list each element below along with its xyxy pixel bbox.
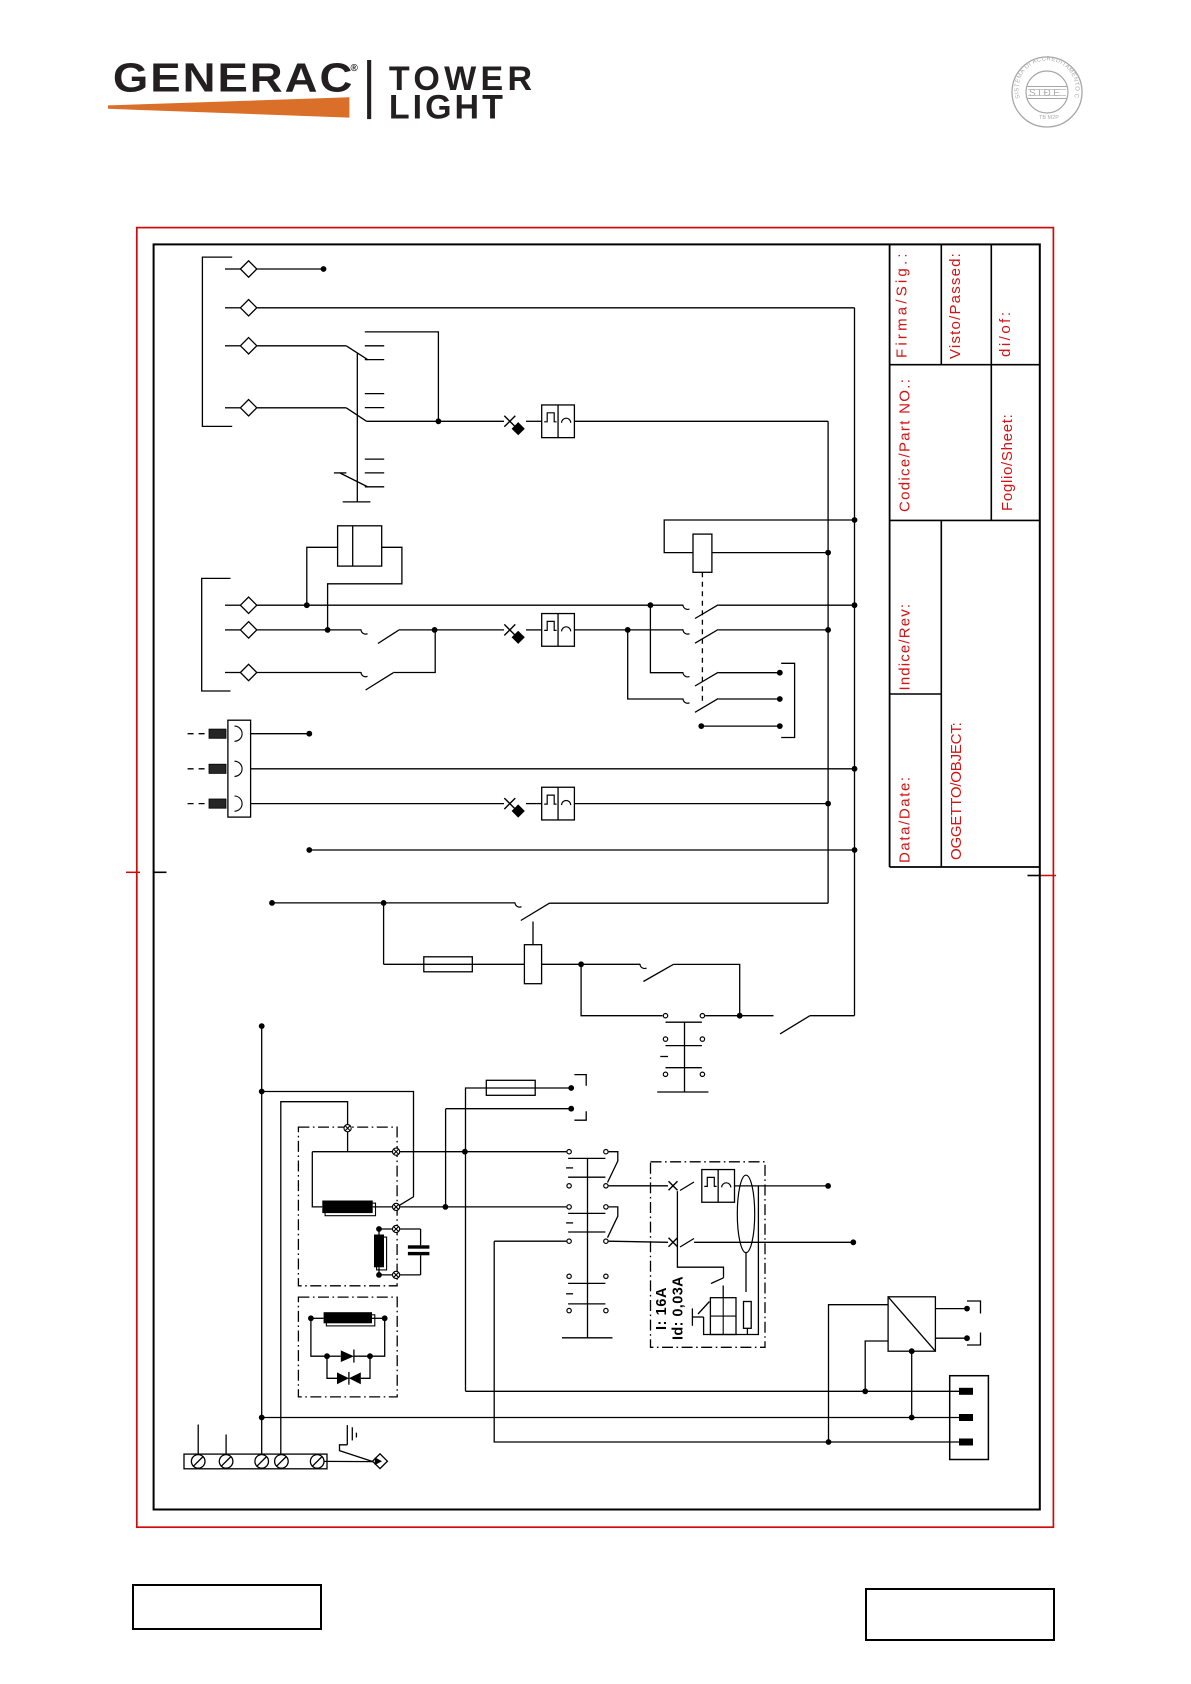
thermal breaker Q1 xyxy=(542,405,575,438)
terminal block X1 body xyxy=(228,720,251,817)
wire row 630 to bus B xyxy=(718,629,828,631)
wire contact 4 to terminal xyxy=(718,698,778,700)
svg-text:Visto/Passed:: Visto/Passed: xyxy=(947,252,964,359)
wire fuse F5 feed xyxy=(466,1088,487,1391)
capacitor C1 xyxy=(420,1229,422,1245)
wire row 672 to switch xyxy=(257,672,361,674)
RCD pole A fuse mark xyxy=(669,1181,678,1190)
connector X2 pin 3 xyxy=(959,1439,973,1446)
relay contact K2-2 blade xyxy=(695,630,718,644)
Generac orange swoosh xyxy=(108,97,349,117)
terminal T5 on box A right xyxy=(379,1274,421,1276)
centre fold mark right (black) xyxy=(1028,875,1040,877)
pushbutton SB1 contact left xyxy=(663,1014,667,1018)
wire battery positive stub xyxy=(259,1023,265,1029)
switch S2b blade xyxy=(366,673,394,690)
wire K1 right terminal xyxy=(328,547,402,629)
wire U1 output + xyxy=(935,1308,965,1310)
relay contact K2-1 fixed xyxy=(683,605,690,610)
switch S4 blade xyxy=(643,964,673,981)
strip terminal 4 xyxy=(275,1455,289,1469)
resistor R2 (filled, vertical) xyxy=(376,1226,382,1232)
selector pole 2 contacts xyxy=(567,1205,571,1209)
switch S3 blade xyxy=(521,903,550,920)
wire K2 right terminal to bus B xyxy=(712,552,827,554)
diode D1 xyxy=(327,1355,341,1357)
relay contact K2-4 fixed xyxy=(683,699,690,704)
switch S4 seat xyxy=(640,964,647,969)
wire selector to RCD line B xyxy=(609,1241,668,1242)
RCD pole A blade xyxy=(680,1182,694,1191)
RCD trip coil xyxy=(710,1298,736,1335)
connector pin 2.1 (diamond) xyxy=(225,604,240,606)
earth terminal strip xyxy=(184,1454,327,1469)
wire Q1 to vertical bus B xyxy=(574,420,828,422)
wire U1 output - xyxy=(935,1337,965,1339)
branch row903 down to fuse F4 xyxy=(383,903,385,964)
logo divider bar xyxy=(367,60,371,119)
wire row 1152 (box A to selector) xyxy=(312,1151,566,1153)
thermal breaker Q2 xyxy=(542,614,575,647)
resistor R3 (filled) xyxy=(308,1315,314,1321)
svg-text:Codice/Part NO.:: Codice/Part NO.: xyxy=(896,378,913,512)
wire line Y3 from selector pole2 xyxy=(494,1241,959,1442)
wire row 1109 to faston xyxy=(446,1108,570,1110)
wire K2 left terminal to bus A xyxy=(664,520,853,553)
wire S5 to bus A bottom xyxy=(810,1015,855,1017)
wire ferrule 1 xyxy=(209,729,226,738)
centre fold mark right (red) xyxy=(1040,875,1056,877)
strip terminal 3 xyxy=(255,1455,269,1469)
RCD current transformer xyxy=(737,1175,754,1252)
relay contact row 3 feed xyxy=(650,605,683,673)
RCD box (dash-dot) xyxy=(651,1162,766,1348)
connector X2 body xyxy=(950,1376,989,1460)
wire U1 bottom to line Y2 xyxy=(911,1351,913,1417)
wire selector to RCD line A xyxy=(609,1185,668,1187)
connector pin 1.1 (diamond) xyxy=(225,268,240,270)
wire F3 to breaker Q3 xyxy=(526,803,542,805)
connector X2 pin 1 xyxy=(959,1388,973,1395)
wire F1 to breaker Q1 xyxy=(526,420,542,422)
wire Q2 to relay contact xyxy=(574,629,683,631)
selector pole 3 contacts xyxy=(567,1274,571,1278)
wire pin1.1 to node xyxy=(257,268,322,270)
branch node down to row 1016 xyxy=(581,964,662,1015)
connector pin 1.4 (diamond) xyxy=(225,407,240,409)
terminal X1.3 contact xyxy=(235,796,243,811)
RCD pole B fuse mark xyxy=(669,1238,678,1247)
wire strip to earth diamond xyxy=(324,1460,373,1462)
title block divider row2 xyxy=(890,519,1040,521)
svg-text:®: ® xyxy=(351,63,359,74)
svg-text:OGGETTO/OBJECT:: OGGETTO/OBJECT: xyxy=(948,722,965,860)
faston bracket 1 xyxy=(574,1075,586,1086)
wire RCD line A out xyxy=(734,1185,826,1187)
wire R3 right down xyxy=(370,1318,385,1356)
wire K1 left terminal xyxy=(307,547,338,605)
key switch blade a xyxy=(346,346,368,360)
faston bracket U1 out- xyxy=(967,1333,981,1346)
switch S2b seat xyxy=(361,672,368,677)
pushbutton SB1 side tick xyxy=(660,1056,668,1058)
fuse disconnector F1 xyxy=(504,416,515,427)
resistor R1 (filled) xyxy=(325,1203,375,1216)
strip stub 1 xyxy=(197,1425,199,1455)
connector X bracket group 2 xyxy=(202,578,231,691)
RCD trip blade xyxy=(711,1278,724,1284)
strip terminal 1 xyxy=(191,1455,205,1469)
wire R3 left down xyxy=(311,1318,327,1356)
connector pin 1.3 (diamond) xyxy=(225,345,240,347)
selector S6 shaft xyxy=(587,1158,589,1337)
connector bracket right of contacts xyxy=(781,663,794,737)
selector pole 1 contacts xyxy=(567,1150,571,1154)
wire line Y1 xyxy=(466,1390,960,1392)
key switch top link xyxy=(365,332,439,421)
wire row 1016 middle xyxy=(705,1015,773,1017)
wire box A internal down xyxy=(312,1152,322,1207)
terminal T1 on box A top xyxy=(344,1125,351,1132)
wire X1.2 long feed to bus A xyxy=(251,768,855,770)
bottom-left reference box xyxy=(132,1584,322,1630)
wire contact 3 to terminal xyxy=(718,672,778,674)
relay contact K2-3 blade xyxy=(695,672,718,686)
relay coil K1 xyxy=(338,526,382,566)
RCD trip linkage xyxy=(677,1191,723,1278)
wire S2b up to row 630 xyxy=(393,630,435,673)
dashed lead 3 xyxy=(188,803,208,805)
wire row 1207 (R1 to selector) xyxy=(373,1206,567,1208)
regulator box B (dash-dot) xyxy=(298,1297,397,1397)
centre fold mark left (red) xyxy=(126,871,140,873)
relay coil K2 xyxy=(693,534,712,572)
wire K3 to node xyxy=(542,963,582,965)
wire line Y2 xyxy=(262,1417,959,1419)
switch S2a blade xyxy=(378,630,399,643)
relay contact K2-4 blade xyxy=(695,699,718,713)
relay contact K2-2 fixed xyxy=(683,629,690,634)
fuse disconnector F2 xyxy=(504,624,515,635)
wire row 605 right segment xyxy=(718,604,854,606)
pushbutton SB1 body bars xyxy=(666,1021,702,1023)
RCD test blade xyxy=(698,1302,710,1315)
RCD test loop xyxy=(704,1186,759,1334)
svg-text:Firma/Sig.:: Firma/Sig.: xyxy=(894,250,911,358)
connector pin 2.2 (diamond) xyxy=(225,629,240,631)
title block divider row3 xyxy=(890,693,942,695)
wire S4 to drop xyxy=(673,964,739,1015)
svg-text:Indice/Rev:: Indice/Rev: xyxy=(896,603,913,691)
selector blade pole1 xyxy=(608,1152,618,1183)
sheet black border xyxy=(154,244,1040,1509)
strip stub 2 xyxy=(225,1435,227,1455)
pushbutton SB1 contact right xyxy=(700,1014,704,1018)
approval stamp xyxy=(1008,53,1088,133)
thermal breaker Q3 xyxy=(542,787,575,820)
relay K2 mechanical link (dashed) xyxy=(701,572,703,704)
relay contact K2-1 blade xyxy=(695,605,718,619)
fuse F5 xyxy=(486,1080,535,1095)
switch S5 blade xyxy=(780,1016,810,1034)
connector X bracket group 1 xyxy=(202,257,232,426)
svg-text:Foglio/Sheet:: Foglio/Sheet: xyxy=(999,414,1016,512)
wire pin1.2 long feed to vertical bus A xyxy=(257,307,854,309)
title block divider col1 xyxy=(940,244,942,364)
svg-text:Id: 0,03A: Id: 0,03A xyxy=(670,1276,686,1340)
wire X1.3 to fuse F3 xyxy=(251,803,504,805)
svg-text:di/of:: di/of: xyxy=(997,309,1014,357)
strip terminal 5 xyxy=(310,1455,324,1469)
bottom-right reference box xyxy=(865,1588,1055,1641)
vertical bus A x=854.5 xyxy=(854,308,856,1016)
wire X1.1 stub xyxy=(251,733,308,735)
dashed lead 1 xyxy=(188,733,208,735)
selector S6 base bar xyxy=(562,1337,613,1339)
dashed lead 2 xyxy=(188,768,208,770)
wire row1109 drop to selector row3 xyxy=(445,1109,447,1207)
terminal T4 on box A right xyxy=(379,1228,421,1230)
title block outline xyxy=(889,244,891,867)
earth connector diamond xyxy=(373,1454,388,1469)
terminal X1.2 contact xyxy=(235,761,243,776)
regulator box A (dash-dot) xyxy=(298,1127,397,1286)
wire strip t4 riser xyxy=(281,1102,348,1455)
wire F2 to breaker Q2 xyxy=(526,629,542,631)
suppressor D2 (bidirectional) xyxy=(327,1356,337,1378)
Generac logo wordmark xyxy=(100,50,600,135)
connector X2 pin 2 xyxy=(959,1414,973,1421)
switch S2a seat xyxy=(361,629,368,634)
vertical bus B x=828.1 xyxy=(827,421,829,903)
wire row 630 to switch xyxy=(257,629,361,631)
key switch S1 body xyxy=(356,354,358,502)
terminal T2 on box A right xyxy=(393,1148,400,1155)
sheet red outer frame xyxy=(137,228,1054,1528)
wire contact row 5 xyxy=(701,725,778,727)
faston bracket U1 out+ xyxy=(967,1301,981,1314)
RCD test button xyxy=(691,1308,693,1325)
title block divider row1 xyxy=(890,364,1040,366)
faston bracket 2 xyxy=(574,1111,586,1120)
pushbutton SB1 aux contacts xyxy=(663,1037,667,1041)
terminal T3 on box A right xyxy=(393,1203,400,1210)
selector blade pole2 xyxy=(608,1207,618,1238)
wire pin1.4 to key switch xyxy=(257,407,346,409)
RCD breaker QA xyxy=(702,1170,735,1203)
relay contact K2-3 fixed xyxy=(683,672,690,677)
link S3 blade to K3 xyxy=(532,922,534,945)
wire Q3 to bus B xyxy=(574,803,828,805)
RCD test resistor xyxy=(744,1302,752,1329)
wire ferrule 3 xyxy=(209,799,226,808)
svg-text:I: 16A: I: 16A xyxy=(654,1287,670,1330)
earth symbol xyxy=(346,1425,348,1445)
wire pin1.3 to key switch xyxy=(257,345,346,347)
key switch lower blade xyxy=(334,472,347,474)
svg-text:LIGHT: LIGHT xyxy=(389,88,506,126)
fuse F4 xyxy=(424,957,473,972)
wire row 630 to fuse F2 xyxy=(399,629,435,631)
wire F5 to faston xyxy=(535,1087,569,1089)
wire branch to regulator terminal xyxy=(262,1092,414,1206)
terminal X1.1 contact xyxy=(235,726,243,741)
wire U1 input 2 xyxy=(865,1341,888,1391)
relay contact row 4 feed xyxy=(628,630,683,699)
wire RCD line B out xyxy=(694,1241,852,1243)
connector pin 1.2 (diamond) xyxy=(225,307,240,309)
strip terminal 2 xyxy=(219,1455,233,1469)
svg-text:GENERAC: GENERAC xyxy=(113,56,354,101)
converter U1 xyxy=(888,1297,935,1351)
pushbutton SB1 stem xyxy=(684,1022,686,1092)
key switch base T xyxy=(343,501,371,503)
svg-text:TB M2P: TB M2P xyxy=(1039,115,1059,121)
wire row 903 with switch S3 xyxy=(269,900,275,906)
wire ferrule 2 xyxy=(209,764,226,773)
RCD pole B blade xyxy=(680,1239,694,1248)
wire row 605 left segment xyxy=(257,604,683,606)
relay coil K3 xyxy=(524,945,541,984)
fuse disconnector F3 xyxy=(504,798,515,809)
key switch blade b xyxy=(346,408,366,422)
title block divider col2 xyxy=(990,244,992,520)
centre fold mark left (black) xyxy=(154,871,167,873)
wire key switch to fuse F1 xyxy=(367,420,504,422)
wire U1 input 1 xyxy=(829,1305,889,1442)
wire row 850 stub to bus A xyxy=(306,847,312,853)
connector pin 2.3 (diamond) xyxy=(225,672,240,674)
svg-text:Data/Date:: Data/Date: xyxy=(896,775,913,863)
